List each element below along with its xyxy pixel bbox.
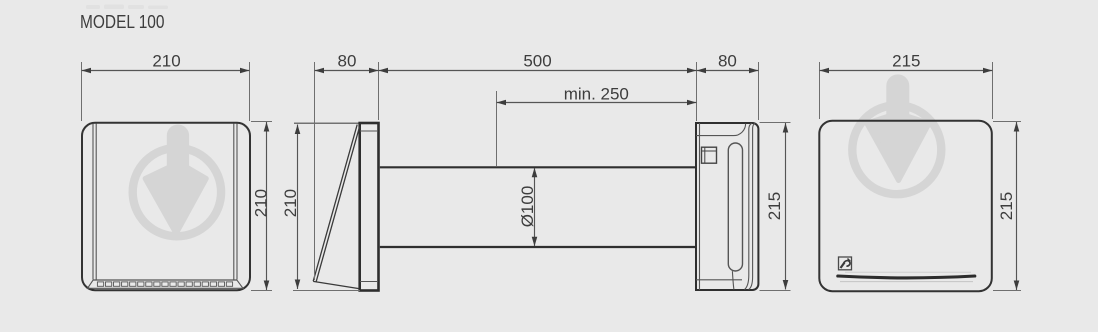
dim line 210 top: [82, 70, 250, 72]
faint cropped text remnant at top: [86, 5, 168, 10]
duct top line: [380, 166, 696, 168]
svg-text:min. 250: min. 250: [564, 85, 629, 104]
svg-text:210: 210: [152, 52, 180, 71]
ext lines top 210: [81, 62, 83, 121]
dim line d100: [534, 168, 536, 246]
svg-text:210: 210: [281, 189, 300, 217]
svg-text:215: 215: [997, 192, 1016, 220]
svg-text:80: 80: [338, 52, 357, 71]
left view inner panel left edge lines: [93, 124, 96, 280]
watermark left (ring + pointer glyph): [133, 127, 221, 236]
indoor unit capsule slot: [728, 143, 742, 271]
ext line hood bar right: [378, 62, 380, 120]
ext lines 210 left square vertical: [251, 121, 272, 123]
left view grille slots: [97, 282, 232, 286]
ext lines 215 right square: [993, 121, 1021, 123]
left view inner panel right edge lines: [234, 124, 237, 280]
right view outer body: [819, 121, 992, 292]
indoor unit lower curve: [732, 271, 734, 289]
hood slanted cover double line: [313, 125, 359, 282]
indoor unit back plate line: [699, 123, 701, 290]
hood bottom slant line: [313, 281, 359, 288]
indoor unit switch box: [702, 147, 717, 163]
dim line 210 left square: [266, 122, 268, 290]
indoor unit front cover edge lines: [745, 123, 752, 289]
hood wall plate bar: [360, 123, 379, 291]
ext line hood left corner: [314, 62, 316, 280]
hood top line: [294, 122, 359, 124]
dim line 80 left: [315, 70, 379, 72]
right view bottom grille slot: [845, 271, 971, 273]
ext lines top 215: [819, 62, 821, 119]
dim line 210 hood: [297, 125, 299, 290]
svg-text:Ø100: Ø100: [518, 186, 537, 228]
hood bar inner cap lines: [360, 131, 378, 282]
arrowheads: [82, 68, 1020, 290]
left view outer body: [82, 123, 250, 290]
dim line 215 top: [820, 70, 993, 72]
ext line unit right: [758, 62, 760, 120]
dim line min 250: [497, 102, 697, 104]
left view grille bottom trapezoid: [88, 280, 244, 288]
indoor unit top inner line: [696, 124, 746, 136]
svg-text:MODEL 100: MODEL 100: [80, 12, 165, 32]
indoor unit bottom inner line: [696, 279, 742, 281]
ext lines 215 indoor: [760, 122, 791, 124]
ext line unit left: [696, 62, 698, 121]
duct bottom line: [380, 246, 696, 248]
right view brand logo: [839, 257, 852, 270]
svg-text:215: 215: [765, 192, 784, 220]
dim line 215 right square: [1016, 122, 1018, 290]
svg-text:80: 80: [718, 52, 737, 71]
dimension texts: [152, 52, 1016, 228]
dim line 500: [379, 70, 697, 72]
left view grille top line: [93, 279, 237, 281]
indoor unit outer body: [696, 123, 758, 290]
dim line 80 right: [697, 70, 759, 72]
ext line min250: [496, 91, 498, 166]
ext line hood bottom: [293, 290, 360, 292]
svg-text:210: 210: [251, 189, 270, 217]
watermark right (ring + pointer glyph): [852, 77, 941, 194]
svg-text:215: 215: [892, 52, 920, 71]
svg-text:500: 500: [523, 52, 551, 71]
dim line 215 indoor: [785, 123, 787, 290]
